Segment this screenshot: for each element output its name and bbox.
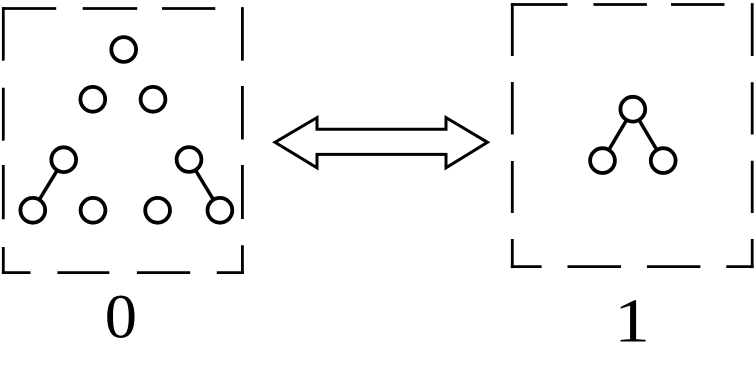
- node root (right panel tree): [620, 97, 645, 122]
- wire edge B (node E to node I): [189, 160, 220, 211]
- node G (bottom row circle 2): [81, 198, 106, 223]
- double-headed hollow arrow: [275, 118, 488, 168]
- node D (row3 left circle): [51, 147, 76, 172]
- svg-text:1: 1: [614, 287, 650, 356]
- node H (bottom row circle 3): [145, 198, 170, 223]
- node C (row2 right circle): [141, 87, 166, 112]
- node F (bottom row circle 1): [20, 198, 45, 223]
- node A (top circle, left panel): [111, 37, 136, 62]
- node I (bottom row circle 4): [208, 198, 233, 223]
- node left child: [590, 148, 615, 173]
- node E (row3 right circle): [177, 147, 202, 172]
- wire edge A (node D to node F): [33, 160, 64, 211]
- wire tree edge left (root to left child): [603, 110, 633, 161]
- wire tree edge right (root to right child): [633, 110, 663, 161]
- svg-text:0: 0: [105, 283, 137, 352]
- dashed box 1 (right panel border): [511, 3, 754, 268]
- node right child: [651, 148, 676, 173]
- dashed box 0 (left panel border): [2, 7, 244, 274]
- node B (row2 left circle): [80, 87, 105, 112]
